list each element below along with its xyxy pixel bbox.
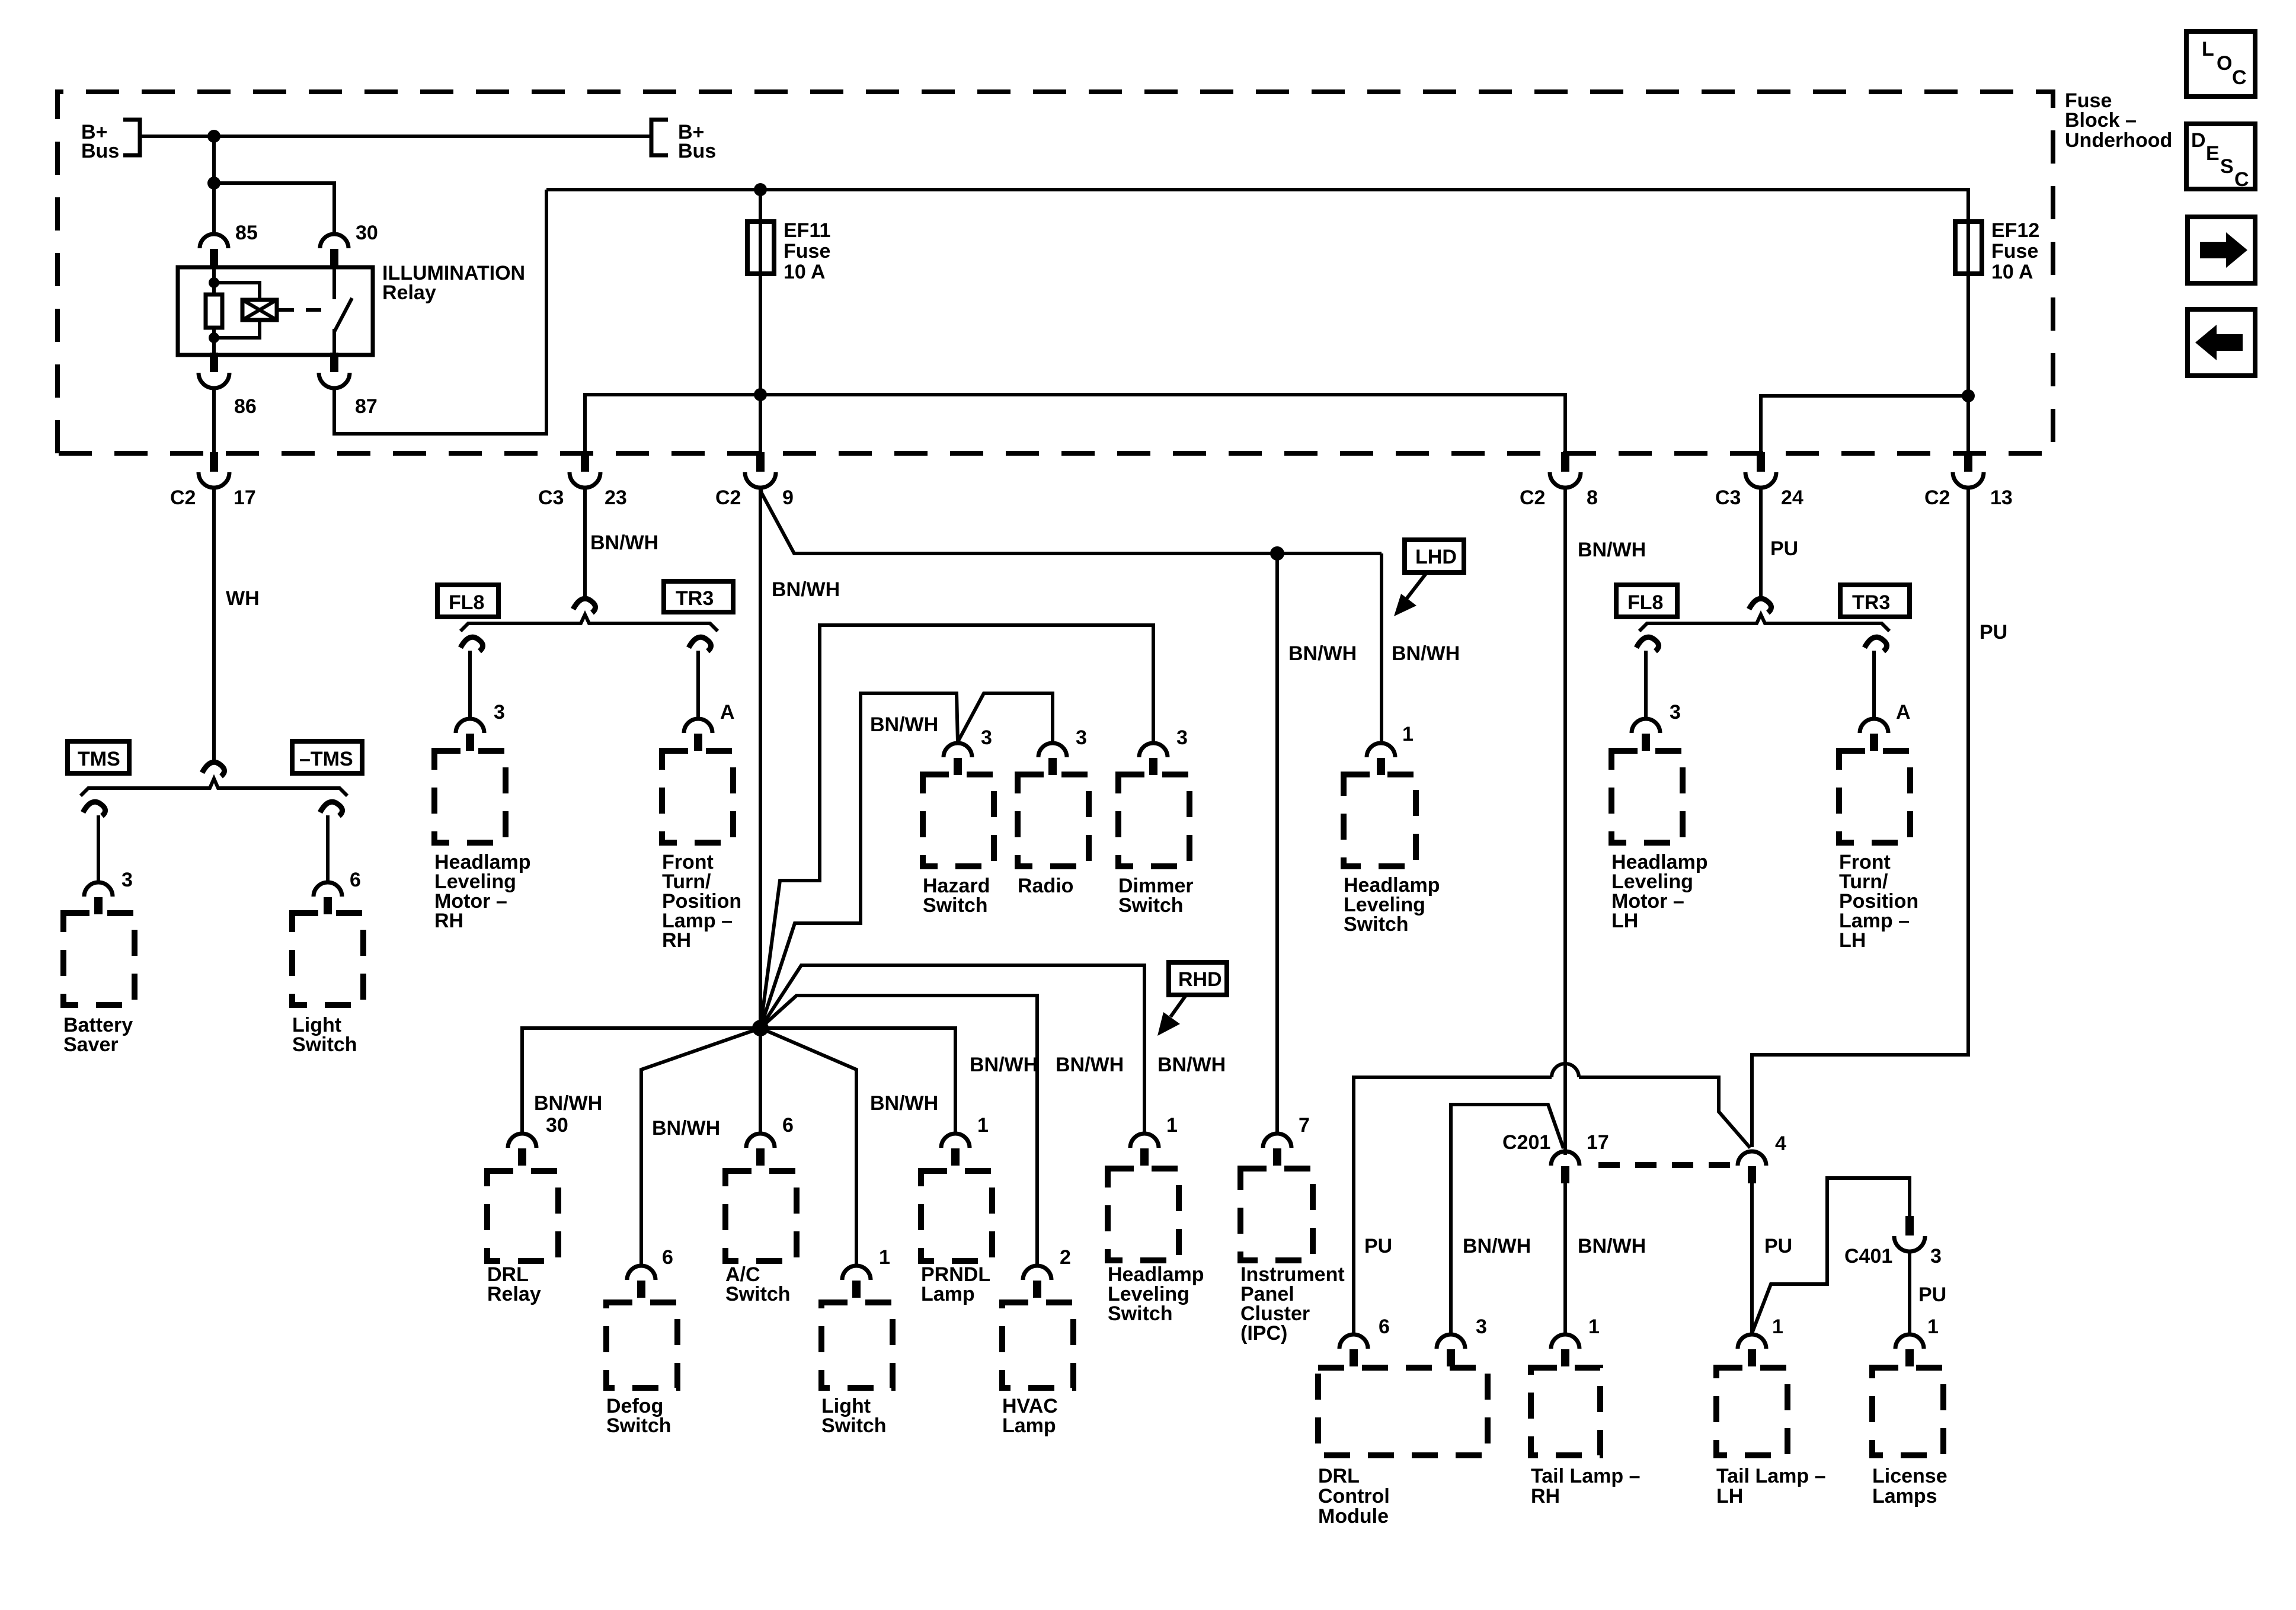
connector C2 pin 8 [1550,452,1581,488]
svg-text:BN/WH: BN/WH [1578,1235,1646,1257]
label C3 23 [538,486,627,509]
label A/C Switch [725,1263,791,1305]
connector C2 pin 17 [199,452,229,488]
svg-text:24: 24 [1781,486,1803,509]
component Hazard Switch box [923,774,994,866]
pin 3 DRL Control Module [1437,1334,1465,1366]
label Fuse Block Underhood [2065,89,2172,152]
component Battery Saver box [63,913,135,1005]
svg-text:FL8: FL8 [1627,591,1663,614]
svg-text:RHD: RHD [1178,968,1222,991]
wire EF11 tap down [759,190,762,223]
relay actuation dashed link [279,308,325,312]
fuse block dashed boundary [57,92,2053,453]
svg-text:Switch: Switch [1344,913,1409,936]
label pin 6 [350,869,361,891]
label pin 87 [355,395,378,418]
pin 30 DRL Relay [508,1134,536,1166]
label License Lamps [1872,1465,1948,1507]
arrow LHD pointer [1394,574,1426,616]
label Radio [1018,875,1073,897]
svg-text:WH: WH [226,587,260,610]
wire BN/WH branch to DRL Control Module pin 3 [1451,1105,1563,1333]
svg-text:E: E [2206,142,2220,165]
label BN/WH Light Switch [870,1092,938,1115]
label Tail Lamp LH [1716,1465,1826,1507]
label BN/WH C3-23 [590,532,658,554]
wire WH from C2-17 [212,486,216,762]
svg-text:Saver: Saver [63,1033,119,1056]
svg-text:1: 1 [977,1114,989,1137]
pin 3 Battery Saver [84,882,113,914]
pin 6 A/C Switch [746,1134,775,1166]
brace TMS split [81,779,347,796]
wire feeder bus to EF12 [546,190,1968,225]
wire to Front Turn/Position Lamp RH [696,651,700,718]
wire B+ bus horizontal [140,135,651,138]
svg-text:Block –: Block – [2065,109,2137,132]
label Dimmer Switch [1118,875,1194,917]
pin 3 Hazard Switch [944,743,972,775]
svg-text:A: A [1896,701,1911,724]
label PU tail LH [1764,1235,1792,1257]
svg-text:8: 8 [1587,486,1598,509]
pin 1 Headlamp Leveling Switch RHD [1130,1134,1159,1166]
svg-text:PU: PU [1770,537,1798,560]
wire BN/WH C201-17 to Tail Lamp RH [1563,1183,1567,1333]
wire branch to pin 85 [212,183,216,233]
wire pin 86 down to C2-17 [212,387,216,455]
label C401 3 [1844,1245,1942,1267]
svg-text:FL8: FL8 [449,591,484,614]
svg-text:Switch: Switch [821,1414,887,1437]
svg-text:L: L [2202,38,2214,60]
label PRNDL Lamp [921,1263,990,1305]
svg-text:C2: C2 [715,486,741,509]
connector C201 pin 4 [1738,1151,1766,1183]
label Headlamp Leveling Motor RH [434,851,531,932]
label C2 13 [1924,486,2013,509]
label BN/WH HVAC [1056,1054,1124,1076]
label PU DRL pin6 [1364,1235,1392,1257]
wire to Front Turn/Position Lamp LH [1872,651,1876,718]
svg-text:30: 30 [546,1114,568,1137]
svg-text:Switch: Switch [292,1033,357,1056]
label pin 1 [977,1114,989,1137]
component PRNDL Lamp box [921,1171,992,1261]
label ILLUMINATION Relay [382,262,525,304]
pin 6 DRL Control Module [1339,1334,1368,1366]
component Dimmer Switch box [1118,774,1189,866]
svg-text:1: 1 [1588,1315,1600,1338]
svg-text:3: 3 [121,869,133,891]
pin 30 connector [320,234,348,266]
svg-text:BN/WH: BN/WH [870,713,938,736]
label BN/WH Defog [652,1117,720,1140]
svg-text:C2: C2 [1520,486,1545,509]
svg-text:License: License [1872,1465,1948,1487]
wire star to Dimmer Switch [760,625,1153,1028]
svg-text:Relay: Relay [487,1283,541,1305]
svg-text:BN/WH: BN/WH [1288,642,1357,665]
label pin 3 [1476,1315,1487,1338]
svg-text:Tail Lamp –: Tail Lamp – [1531,1465,1641,1487]
svg-text:DRL: DRL [1318,1465,1360,1487]
pin 3 Headlamp Leveling Motor LH [1632,719,1660,751]
svg-text:Bus: Bus [81,140,119,162]
wire resistor bottom to pin 86 [212,328,216,355]
svg-text:PU: PU [1980,621,2007,644]
svg-text:Switch: Switch [923,894,988,917]
svg-text:Radio: Radio [1018,875,1073,897]
svg-text:RH: RH [662,929,691,952]
node B+ Bus right terminal [651,120,668,155]
label pin 86 [234,395,257,418]
svg-text:(IPC): (IPC) [1240,1322,1287,1345]
brace FL8/TR3 left split [461,614,718,631]
component DRL Relay box [487,1171,558,1261]
wire BN/WH from C3-23 [583,486,587,598]
svg-text:BN/WH: BN/WH [1392,642,1460,665]
label DRL Relay [487,1263,541,1305]
svg-text:9: 9 [782,486,794,509]
svg-text:BN/WH: BN/WH [970,1054,1038,1076]
label pin 3 [121,869,133,891]
svg-text:1: 1 [879,1246,890,1269]
wire star west to DRL Relay [522,1028,760,1132]
svg-text:TR3: TR3 [1852,591,1890,614]
wire distribution EF12 to C3-24 [1761,396,1968,455]
wire PU C201-4 to Tail Lamp LH [1750,1183,1754,1333]
wire star east to PRNDL Lamp [760,1028,955,1132]
wire distribution EF11 left to C3-23 [585,395,760,455]
svg-text:LH: LH [1839,929,1866,952]
component Radio box [1018,774,1089,866]
label B+ Bus right [678,121,716,162]
svg-text:23: 23 [605,486,627,509]
label Front Turn/Position Lamp RH [662,851,741,952]
label DRL Control Module [1318,1465,1390,1528]
label pin 3 [981,726,992,749]
wire star to Hazard Switch [760,693,958,1028]
svg-text:Lamp: Lamp [1002,1414,1056,1437]
label C3 24 [1715,486,1803,509]
label Instrument Panel Cluster (IPC) [1240,1263,1345,1345]
svg-text:RH: RH [434,910,463,932]
label Light Switch [292,1014,357,1056]
svg-text:BN/WH: BN/WH [1056,1054,1124,1076]
svg-text:C201: C201 [1502,1131,1550,1154]
label BN/WH C2-9 [772,578,840,601]
svg-text:BN/WH: BN/WH [772,578,840,601]
pin 1 PRNDL Lamp [941,1134,970,1166]
svg-text:TR3: TR3 [676,587,714,610]
svg-text:–TMS: –TMS [299,748,353,770]
pin 86 connector [199,353,229,388]
svg-text:BN/WH: BN/WH [652,1117,720,1140]
label Headlamp Leveling Switch RHD [1108,1263,1204,1325]
pin A Front Turn/Position Lamp RH [684,719,712,751]
svg-text:3: 3 [1476,1315,1487,1338]
svg-text:BN/WH: BN/WH [1463,1235,1531,1257]
pin 3 Headlamp Leveling Motor RH [456,719,484,751]
svg-text:1: 1 [1402,723,1414,745]
connector C201 pin 17 [1551,1151,1579,1183]
wire BN/WH from C2-8 to C201-17 [1563,486,1567,1155]
splice hook above TMS brace [202,762,225,776]
svg-text:S: S [2220,155,2234,178]
component Tail Lamp LH box [1716,1368,1787,1455]
label pin 6 [1379,1315,1390,1338]
label Headlamp Leveling Motor LH [1611,851,1708,932]
svg-text:Lamps: Lamps [1872,1485,1937,1507]
component HVAC Lamp box [1002,1302,1073,1388]
label pin A [1896,701,1911,724]
svg-text:C401: C401 [1844,1245,1892,1267]
label Tail Lamp RH [1531,1465,1641,1507]
label C2 8 [1520,486,1598,509]
svg-text:BN/WH: BN/WH [590,532,658,554]
svg-text:PU: PU [1764,1235,1792,1257]
component Defog Switch box [606,1302,677,1388]
label BN/WH C2-8 [1578,539,1646,561]
label TR3 right [1840,585,1910,617]
connector C2 pin 13 [1953,452,1984,488]
label FL8 left [437,585,498,617]
junction coil bottom [209,332,219,343]
label Headlamp Leveling Switch LHD [1344,874,1440,936]
label LHD [1405,540,1464,572]
label pin 4 [1775,1132,1786,1155]
svg-text:BN/WH: BN/WH [534,1092,602,1115]
svg-text:Switch: Switch [1118,894,1184,917]
pin 1 Tail Lamp RH [1551,1334,1579,1366]
button DESC [2186,124,2255,191]
label BN/WH tail RH [1578,1235,1646,1257]
component Headlamp Leveling Motor LH box [1611,751,1683,843]
label pin 3 [1076,726,1087,749]
connector C201 body dashed [1598,1162,1740,1168]
svg-text:Switch: Switch [725,1283,791,1305]
component Instrument Panel Cluster box [1240,1169,1313,1260]
svg-text:87: 87 [355,395,378,418]
svg-text:6: 6 [350,869,361,891]
svg-text:17: 17 [1587,1131,1609,1154]
label C2 17 [170,486,256,509]
svg-text:EF12: EF12 [1991,219,2039,242]
svg-text:1: 1 [1927,1315,1939,1338]
svg-text:Switch: Switch [1108,1302,1173,1325]
wire star to Light Switch [760,1028,856,1265]
label pin 1 [879,1246,890,1269]
svg-text:Underhood: Underhood [2065,129,2172,152]
wire relay coil top [212,267,216,295]
svg-text:C2: C2 [1924,486,1950,509]
component Light Switch box [821,1302,893,1388]
svg-text:7: 7 [1299,1114,1310,1137]
wire star to A/C Switch [759,1028,762,1132]
label TMS [68,741,129,773]
junction on B+ bus [207,130,220,143]
svg-text:C: C [2234,168,2249,191]
svg-text:3: 3 [981,726,992,749]
pin 1 Tail Lamp LH [1738,1334,1766,1366]
label PU license [1918,1283,1946,1306]
component Headlamp Leveling Switch LHD box [1344,774,1416,866]
svg-text:Fuse: Fuse [784,240,830,263]
wire to Headlamp Leveling Motor LH [1644,651,1648,718]
svg-text:30: 30 [356,222,378,244]
label B+ Bus left [81,121,119,162]
svg-text:6: 6 [1379,1315,1390,1338]
svg-text:C3: C3 [1715,486,1741,509]
connector C3 pin 24 [1745,452,1776,488]
svg-text:Relay: Relay [382,281,436,304]
resistor R1 relay resistor [206,295,222,328]
arrow RHD pointer [1157,996,1185,1036]
label BN/WH HLS RHD [1157,1054,1226,1076]
wire star to HVAC Lamp [760,996,1037,1265]
junction EF11 distribution [754,388,767,401]
relay U1 ILLUMINATION Relay box [178,267,373,355]
pin 2 HVAC Lamp [1023,1266,1051,1298]
pin 7 Instrument Panel Cluster [1263,1134,1291,1166]
label pin 2 [1060,1246,1071,1269]
junction relay feed [207,177,220,190]
svg-text:85: 85 [235,222,258,244]
label -TMS [292,741,362,773]
wire star to Headlamp Leveling Switch RHD [760,965,1144,1132]
wire PU from C2-13 down right side [1752,486,1968,1147]
svg-text:3: 3 [1176,726,1188,749]
label TR3 left [664,581,733,612]
junction coil top [209,277,219,288]
svg-text:3: 3 [1930,1245,1942,1267]
wire from bus down to relay branch [212,136,216,183]
pin 1 Headlamp Leveling Switch LHD [1367,743,1395,775]
svg-text:Lamp: Lamp [921,1283,975,1305]
label BN/WH IPC wire [1288,642,1357,665]
wire BN/WH to IPC [1275,553,1279,1132]
svg-text:EF11: EF11 [784,219,830,242]
wire EF11 to distribution [759,273,762,455]
svg-text:17: 17 [234,486,256,509]
label PU C3-24 [1770,537,1798,560]
label pin 30 [546,1114,568,1137]
label WH [226,587,260,610]
component DRL Control Module box [1318,1368,1488,1455]
fuse EF12 10A [1955,222,1982,274]
label pin 1 tail RH [1588,1315,1600,1338]
label Defog Switch [606,1395,671,1437]
svg-text:C3: C3 [538,486,564,509]
component Tail Lamp RH box [1531,1368,1600,1455]
splice hook TR3 right branch [1865,637,1887,651]
label BN/WH DRL pin3 [1463,1235,1531,1257]
svg-text:4: 4 [1775,1132,1786,1155]
label Front Turn/Position Lamp LH [1839,851,1918,952]
label Light Switch [821,1395,887,1437]
component Front Turn/Position Lamp RH box [662,751,733,843]
brace FL8/TR3 right split [1639,614,1889,631]
pin 3 Radio [1038,743,1067,775]
label BN/WH DRL Relay [534,1092,602,1115]
node B+ Bus left terminal [123,120,140,155]
svg-text:3: 3 [1670,701,1681,724]
fuse EF11 10A [747,222,774,274]
label HVAC Lamp [1002,1395,1058,1437]
component Headlamp Leveling Motor RH box [434,751,506,843]
component License Lamps box [1872,1368,1943,1455]
svg-text:2: 2 [1060,1246,1071,1269]
label pin 1 [1166,1114,1178,1137]
component A/C Switch box [725,1171,797,1261]
splice hook TMS left [83,802,105,816]
svg-text:LHD: LHD [1415,546,1457,568]
wire star to Defog Switch [641,1028,760,1265]
pin 6 Light Switch [314,882,342,914]
label BN/WH LHD wire [1392,642,1460,665]
wire to Light Switch (body) [326,815,330,881]
label pin A [720,701,735,724]
label pin 1 license [1927,1315,1939,1338]
label pin 6 A/C [782,1114,794,1137]
wire switch contact top [332,267,336,299]
label RHD [1169,962,1227,995]
wire switch bottom to pin 87 [332,329,336,355]
connector C2 pin 9 [745,452,776,488]
svg-text:10 A: 10 A [1991,261,2033,283]
label BN/WH hazard loop [870,713,938,736]
splice hook FL8 branch [461,637,483,651]
component Front Turn/Position Lamp LH box [1839,751,1910,843]
junction EF11 tap [754,183,767,196]
label pin 6 [662,1246,673,1269]
button LOC [2186,31,2255,97]
pin 6 Defog Switch [627,1266,655,1298]
svg-text:1: 1 [1166,1114,1178,1137]
splice hook above FL8/TR3 brace [573,598,596,613]
button arrow left [2188,309,2255,376]
svg-text:LH: LH [1611,910,1638,932]
svg-text:LH: LH [1716,1485,1743,1507]
pin 1 License Lamps [1895,1334,1924,1366]
svg-text:C: C [2232,66,2247,89]
connector C3 pin 23 [570,452,600,488]
label pin 1 tail LH [1772,1315,1783,1338]
splice hook above right FL8/TR3 brace [1749,598,1771,613]
svg-text:BN/WH: BN/WH [870,1092,938,1115]
svg-text:PU: PU [1364,1235,1392,1257]
label EF12 Fuse 10 A [1991,219,2039,283]
component Light Switch box (body feed) [292,913,363,1005]
wire PU from C3-24 [1759,486,1763,598]
wire Hazard to Radio [958,693,1053,742]
svg-text:PU: PU [1918,1283,1946,1306]
svg-text:3: 3 [1076,726,1087,749]
label PU C2-13 [1980,621,2007,644]
svg-text:13: 13 [1990,486,2013,509]
label Hazard Switch [923,875,990,917]
label pin 3 [1670,701,1681,724]
wire to Headlamp Leveling Motor RH [468,651,472,718]
wire branch Tail LH to C401 [1752,1178,1910,1333]
svg-text:6: 6 [782,1114,794,1137]
wire EF12 down [1966,273,1970,455]
component Headlamp Leveling Switch RHD box [1108,1169,1179,1260]
splice hook TMS right [320,802,343,816]
svg-text:Fuse: Fuse [1991,240,2038,263]
